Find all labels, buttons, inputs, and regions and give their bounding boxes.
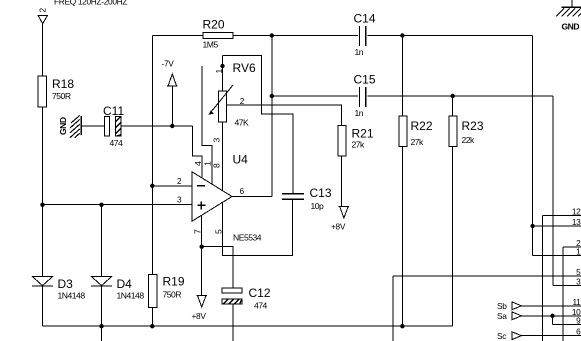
svg-text:5: 5: [576, 267, 581, 277]
svg-text:1n: 1n: [355, 108, 364, 118]
op-amp U4: [177, 153, 262, 243]
svg-text:474: 474: [110, 138, 124, 148]
junction C14 line / R22 top: [400, 33, 404, 37]
wire: pin 12 line: [543, 215, 581, 217]
resistor R19: [149, 274, 185, 307]
svg-text:FREQ 120HZ-200HZ: FREQ 120HZ-200HZ: [54, 0, 127, 6]
wire: C15 right to corner: [367, 95, 553, 97]
wire: RV6 wiper to R21 top: [227, 105, 342, 126]
svg-text:750R: 750R: [52, 91, 71, 101]
junction C14 net / pin 13 line: [530, 224, 534, 228]
resistor R18: [38, 76, 74, 107]
port 2 top left: [38, 8, 48, 24]
svg-text:Sc: Sc: [497, 331, 506, 341]
junction node A / D4: [99, 203, 103, 207]
svg-text:RV6: RV6: [233, 61, 256, 75]
svg-text:2: 2: [240, 96, 245, 106]
wire: C15 net down to pin 3 corner: [552, 96, 554, 286]
svg-text:5: 5: [214, 229, 224, 234]
wire: D4 cathode through bus to bottom edge: [101, 286, 103, 341]
capacitor C13: [282, 186, 332, 211]
svg-text:-7V: -7V: [162, 59, 175, 69]
wire: pin 5 net corner down to bottom edge: [392, 276, 394, 341]
resistor R23: [449, 116, 484, 147]
svg-text:1n: 1n: [355, 47, 364, 57]
svg-text:+8V: +8V: [331, 222, 346, 232]
wire: R20 right to C14 left plate: [233, 35, 358, 37]
wire: pin 3 line: [553, 285, 581, 287]
svg-text:GND: GND: [58, 117, 68, 135]
capacitor C12: [222, 286, 271, 311]
junction C15 line / R23 top: [451, 94, 455, 98]
wire: pin 2 line: [563, 246, 581, 248]
wire: pin 12 net down to bottom edge: [542, 216, 544, 341]
svg-text:12: 12: [572, 207, 581, 217]
wire: pin 6 line from Sc: [521, 335, 581, 337]
junction RV6 pin 1 node: [220, 64, 224, 68]
svg-text:3: 3: [212, 138, 222, 143]
svg-text:1: 1: [214, 69, 224, 74]
svg-text:C12: C12: [249, 286, 271, 300]
wire: R18 bottom to node A: [42, 107, 44, 205]
resistor R21: [338, 126, 374, 156]
svg-text:D3: D3: [58, 277, 74, 291]
svg-text:2: 2: [177, 176, 182, 186]
wire: node A to D3 anode: [42, 205, 44, 276]
port Sc: [497, 331, 521, 341]
svg-text:R20: R20: [203, 18, 225, 32]
ground symbol at C11: [58, 115, 82, 137]
wire: top-right GND stub: [571, 0, 573, 7]
svg-text:1N4148: 1N4148: [117, 291, 145, 301]
wire: C11 right to -7V node: [121, 125, 193, 127]
svg-text:9: 9: [576, 316, 581, 326]
svg-text:3: 3: [177, 195, 182, 205]
port Sb: [497, 301, 521, 311]
resistor R22: [399, 116, 433, 147]
wire: R21 bottom to +8V arrow: [341, 156, 343, 206]
junction -7V rail / C11: [170, 124, 174, 128]
junction bus / R22: [400, 324, 404, 328]
svg-text:13: 13: [572, 217, 581, 227]
wire: RV6 pin1 node up to comp loop: [222, 56, 224, 66]
junction Sa / pin 10 / pin 9: [550, 314, 554, 318]
wire: R20 left horizontal: [152, 35, 203, 37]
diode D4: [91, 276, 144, 300]
junction bus / D4: [99, 324, 103, 328]
wire: op-amp pin 5 to C13 bottom: [223, 200, 293, 256]
junction bus / R19: [150, 324, 154, 328]
svg-text:27k: 27k: [411, 137, 425, 147]
wire: output vertical R20/C14 node down to pin 6: [271, 36, 273, 197]
svg-text:D4: D4: [117, 277, 133, 291]
wire: pin 9 line: [553, 324, 581, 326]
svg-text:2: 2: [38, 8, 48, 13]
svg-text:NE5534: NE5534: [233, 233, 262, 243]
wire: C14 net down right side: [532, 36, 534, 256]
junction R20 right / output node: [270, 33, 274, 37]
power -7V: [162, 59, 178, 87]
svg-text:R22: R22: [411, 119, 433, 133]
svg-text:R23: R23: [462, 119, 484, 133]
wire: pin 10 line from Sa: [521, 315, 581, 317]
wire: output node to C15 left plate: [272, 95, 358, 97]
wire: op-amp pin 7 stub: [201, 215, 203, 247]
wire: pin 5 line: [393, 275, 581, 277]
svg-text:11: 11: [572, 297, 581, 307]
svg-text:6: 6: [576, 327, 581, 337]
wire: RV6 pin1 step down to op-amp pin 1: [202, 66, 212, 184]
wire: pin 1 line: [533, 255, 581, 257]
wire: Sa node jog to pin 9 line: [552, 316, 554, 325]
svg-text:22k: 22k: [462, 135, 476, 145]
wire: RV6 pin3 down to op-amp pin 8: [222, 122, 224, 191]
wire: pin7 node to C12 top: [202, 247, 233, 288]
wire: D3 cathode to bus corner: [42, 286, 44, 326]
svg-text:4: 4: [193, 161, 203, 166]
resistor R20: [203, 18, 233, 50]
svg-text:R18: R18: [52, 77, 74, 91]
svg-text:Sb: Sb: [497, 301, 507, 311]
wire: pin 11 line from Sb: [521, 305, 581, 307]
wire: RV6 pin1 node down to pot top: [222, 66, 224, 91]
wire: port 2 to R18 top: [42, 24, 44, 76]
junction R20 left / pin 2: [150, 184, 154, 188]
wire: op-amp pin 2 input: [152, 185, 192, 187]
wire: pin 6 output: [232, 196, 272, 198]
svg-text:10p: 10p: [311, 201, 325, 211]
wire: R23 bottom to bus corner: [452, 147, 454, 327]
wire: R19 bottom to bus: [151, 307, 153, 326]
svg-text:+8V: +8V: [192, 311, 207, 321]
svg-text:27k: 27k: [352, 140, 366, 150]
svg-text:7: 7: [193, 229, 203, 234]
capacitor C15: [354, 73, 376, 119]
wire: -7V arrow stem: [171, 86, 173, 126]
wire: bottom bus: [43, 325, 453, 327]
svg-text:Sa: Sa: [497, 311, 507, 321]
potentiometer RV6: [209, 61, 256, 143]
junction pin 7 / +8V / C12: [200, 245, 204, 249]
svg-text:1N4148: 1N4148: [58, 291, 86, 301]
wire: C12 bottom through bus to bottom edge: [232, 304, 234, 341]
power +8V at pin 7: [192, 296, 208, 321]
svg-text:C14: C14: [354, 12, 376, 26]
svg-text:C11: C11: [103, 104, 124, 118]
wire: pin 2 net down to bottom edge: [562, 247, 564, 341]
svg-text:R19: R19: [163, 275, 185, 289]
port Sa: [497, 311, 521, 321]
svg-text:1: 1: [576, 247, 581, 257]
diode D3: [32, 276, 85, 300]
ground symbol top right: [556, 7, 581, 32]
svg-text:6: 6: [240, 186, 245, 196]
svg-text:8: 8: [212, 163, 222, 168]
capacitor C11: [103, 104, 124, 148]
wire: R22 bottom to bus: [401, 147, 403, 327]
wire: pin 13 line: [533, 225, 581, 227]
svg-text:GND: GND: [562, 22, 580, 32]
wire: C14 node down to R22 top: [401, 36, 403, 117]
junction node A R18/D3/pin 3: [40, 203, 44, 207]
svg-text:C13: C13: [310, 186, 332, 200]
wire: node A to D4 branch: [101, 205, 103, 276]
wire: -7V rail step down to pin 4: [192, 126, 202, 178]
wire: op-amp pin 3 input from node A: [43, 204, 193, 206]
wire: C14 right to corner: [367, 35, 532, 37]
svg-text:47K: 47K: [235, 118, 250, 128]
junction output / C15 line: [270, 94, 274, 98]
capacitor C14: [354, 12, 376, 58]
svg-text:U4: U4: [233, 153, 249, 167]
svg-text:3: 3: [576, 277, 581, 287]
power +8V at R21: [331, 207, 349, 232]
svg-text:R21: R21: [352, 127, 374, 141]
wire: C15 node down to R23 top: [452, 96, 454, 116]
svg-text:750R: 750R: [163, 290, 182, 300]
wire: R20 left vertical down to R19 top: [151, 36, 153, 275]
wire: pin7 node to +8V arrow: [201, 247, 203, 296]
svg-text:474: 474: [254, 301, 268, 311]
wire: comp loop top: [223, 56, 293, 193]
svg-text:C15: C15: [354, 73, 376, 87]
svg-text:1M5: 1M5: [203, 40, 219, 50]
wire: GND to C11 left: [82, 125, 105, 127]
